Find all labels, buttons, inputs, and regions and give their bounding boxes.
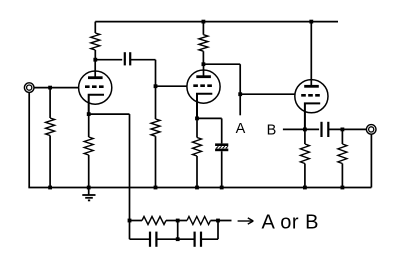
tube V2 grid bbox=[193, 84, 213, 87]
tube V3 grid bbox=[301, 94, 321, 97]
tube V1 cathode bbox=[89, 95, 104, 114]
wire: B+ top rail bbox=[95, 21, 338, 23]
wire: node B line bbox=[283, 128, 319, 130]
wire: J1 sleeve to ground rail bbox=[28, 92, 30, 187]
node: rail junction Rk3 bbox=[303, 186, 307, 190]
wire: cap row right link bbox=[217, 221, 219, 240]
resistor Rf2 feedback bbox=[178, 220, 187, 222]
node: V2 plate junction bbox=[202, 62, 206, 66]
wire: grid node to V2 bbox=[156, 85, 188, 87]
node: rail junction Rk2 bbox=[195, 186, 199, 190]
capacitor Cf1 feedback bbox=[130, 238, 151, 240]
wire: V2 cathode to bypass cap bbox=[197, 117, 222, 119]
capacitor C2 output coupling bbox=[320, 122, 322, 137]
resistor RL output load bbox=[341, 129, 343, 144]
tube V1 envelope bbox=[79, 71, 112, 104]
wire: J1 to V1 grid bbox=[34, 87, 79, 89]
tube V2 cathode bbox=[197, 94, 212, 119]
tube V2 envelope bbox=[187, 70, 220, 103]
node: rail tap for V3 plate bbox=[309, 20, 313, 24]
resistor R2 grid leak V2 bbox=[155, 86, 157, 119]
node: rail junction R2 bbox=[154, 186, 158, 190]
tube V1 plate bbox=[88, 76, 103, 79]
svg-text:A: A bbox=[236, 121, 246, 137]
output jack J2 bbox=[366, 125, 376, 135]
resistor Rg input grid bbox=[49, 88, 51, 118]
capacitor C3 cathode bypass (hatched) bbox=[215, 143, 228, 146]
node: V1 plate junction bbox=[93, 58, 97, 62]
wire: J2 sleeve to ground rail bbox=[370, 134, 372, 188]
wire: C2 to output jack bbox=[328, 128, 366, 130]
resistor Rk3 cathode V3 bbox=[304, 129, 306, 144]
wire: node A stub bbox=[239, 94, 241, 115]
node: feedback left junction bbox=[128, 219, 132, 223]
node A junction bbox=[238, 92, 242, 96]
node: cap row mid junction bbox=[176, 237, 180, 241]
resistor Rk1 cathode V1 bbox=[88, 114, 90, 137]
node: V2 cathode junction bbox=[195, 117, 199, 121]
input jack J1 bbox=[24, 83, 34, 93]
resistor Rf1 feedback bbox=[130, 220, 143, 222]
node: feedback mid junction bbox=[176, 219, 180, 223]
resistor R1 plate load V1 bbox=[94, 22, 96, 33]
node: input grid junction bbox=[48, 86, 52, 90]
wire: rail to V3 plate bbox=[310, 22, 312, 86]
wire: V1 plate to C1 bbox=[95, 59, 122, 61]
capacitor Cf2 feedback bbox=[178, 238, 195, 240]
wire: bottom ground rail bbox=[28, 187, 371, 189]
wire: node A to V3 grid bbox=[240, 93, 295, 95]
tube V3 envelope bbox=[295, 80, 328, 113]
node: rail tap for R3 bbox=[202, 20, 206, 24]
node: rail junction Rk1 bbox=[87, 186, 91, 190]
svg-text:A or B: A or B bbox=[262, 212, 319, 234]
svg-text:B: B bbox=[267, 122, 277, 138]
resistor Rk2 cathode V2 bbox=[196, 118, 198, 137]
node: V1 cathode junction bbox=[87, 112, 91, 116]
node: V2 grid junction bbox=[154, 84, 158, 88]
tube V1 grid bbox=[85, 85, 105, 88]
wire: V2 plate to node A bbox=[203, 63, 240, 65]
node: output junction bbox=[341, 128, 345, 132]
node: rail junction Rg bbox=[48, 186, 52, 190]
node: feedback right junction bbox=[216, 219, 220, 223]
ground symbol bbox=[88, 188, 90, 196]
capacitor C1 coupling bbox=[124, 52, 126, 65]
node: rail junction C3 bbox=[220, 186, 224, 190]
tube V3 plate bbox=[304, 85, 319, 88]
node: rail junction RL bbox=[341, 186, 345, 190]
wire: C1 to V2 grid node bbox=[130, 59, 155, 61]
arrow to tap bbox=[238, 220, 252, 222]
node: V3 cathode junction (B) bbox=[303, 128, 307, 132]
wire: V1 cathode feedback takeoff bbox=[89, 113, 130, 115]
tube V3 cathode bbox=[305, 103, 320, 129]
resistor R3 plate load V2 bbox=[202, 22, 204, 35]
tube V2 plate bbox=[196, 75, 211, 78]
